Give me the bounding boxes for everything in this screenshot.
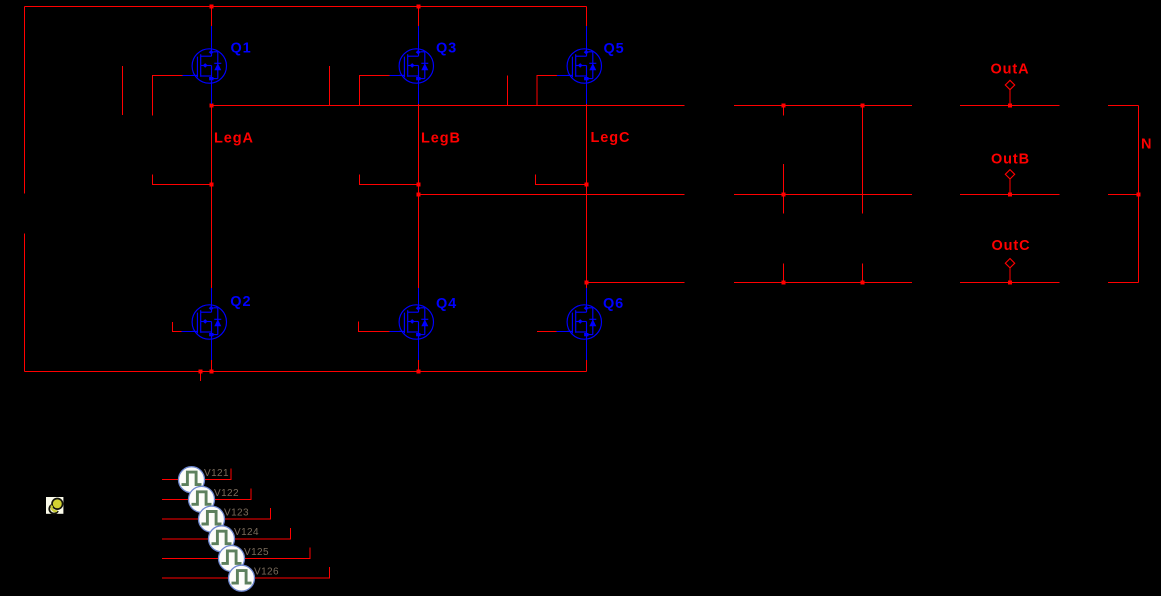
wire: V122 left lead <box>162 498 189 500</box>
node: Q4 source junction <box>417 370 421 374</box>
svg-text:LegA: LegA <box>214 131 254 147</box>
wire: neutral N vertical <box>1138 106 1140 283</box>
wire: LegA vertical <box>211 106 213 289</box>
transistor Q1: drain lead <box>211 26 213 49</box>
svg-text:Q3: Q3 <box>436 40 457 56</box>
wire: DC bus bottom rail <box>25 371 587 373</box>
svg-text:Q1: Q1 <box>231 40 252 56</box>
svg-text:OutB: OutB <box>991 152 1030 168</box>
transistor Q4: MOSFET symbol <box>399 305 433 339</box>
node: LegC tap junction <box>585 183 589 187</box>
wire: V126 left lead <box>162 577 229 579</box>
node: OutB/N junction <box>1137 193 1141 197</box>
svg-text:V121: V121 <box>204 468 229 479</box>
svg-text:LegC: LegC <box>591 130 631 146</box>
transistor Q3: gate lead <box>390 75 406 77</box>
wire: OutC rail segment 3 <box>960 282 1060 284</box>
svg-text:OutC: OutC <box>992 238 1031 254</box>
svg-text:OutA: OutA <box>991 62 1030 78</box>
wire: Q1 source to LegA node <box>211 101 213 106</box>
transistor Q6: source lead <box>586 339 588 360</box>
wire: V126 right lead with up-tick <box>255 567 330 578</box>
node: OutA probe junction <box>1008 104 1012 108</box>
node: OutC probe junction <box>1008 281 1012 285</box>
transistor Q3: source lead <box>418 83 420 104</box>
wire: Q5 gate drive stub <box>507 76 509 106</box>
wire: OutC rail segment 2 <box>734 282 912 284</box>
wire: DC bus left vertical upper piece (source gap below) <box>24 7 26 194</box>
wire: Q4 gate wire <box>359 322 390 332</box>
source V123: square pulse voltage source <box>199 506 225 532</box>
wire: V123 right lead with up-tick <box>225 508 271 519</box>
node: LegA/OutA junction <box>210 104 214 108</box>
node: OutB probe junction <box>1008 193 1012 197</box>
wire: Q3 gate drive stub <box>329 66 331 106</box>
svg-text:V124: V124 <box>234 527 259 538</box>
node: top rail junction at LegB <box>417 5 421 9</box>
transistor Q1: gate lead <box>183 75 199 77</box>
svg-text:Q2: Q2 <box>230 294 251 310</box>
node: LegA tap junction <box>210 183 214 187</box>
transistor Q2: MOSFET symbol <box>192 305 226 339</box>
wire: OutA rail segment 2 <box>734 105 912 107</box>
transistor Q6: MOSFET symbol <box>567 305 601 339</box>
transistor Q2: drain lead <box>211 288 213 305</box>
wire: load branch B vertical pieces (x=862) <box>862 106 864 283</box>
wire: snubber tap into LegA at y=184 <box>153 175 212 185</box>
wire: Q5 gate wire <box>537 76 557 106</box>
wire: Q3 drain stub from top rail <box>418 7 420 27</box>
wire: V125 right lead with up-tick <box>245 548 311 559</box>
wire: snubber tap into LegB at y=183 <box>360 175 419 185</box>
wire: OutB rail segment 1 <box>419 194 685 196</box>
transistor Q1: MOSFET symbol <box>192 49 226 83</box>
svg-text:Q4: Q4 <box>436 296 457 312</box>
wire: V124 right lead with up-tick <box>235 528 291 539</box>
source V124: square pulse voltage source <box>209 526 235 552</box>
wire: OutB rail segment 4 to N <box>1108 194 1139 196</box>
transistor Q6: drain lead <box>586 288 588 305</box>
transistor Q6: gate lead <box>557 331 574 333</box>
svg-text:Q6: Q6 <box>603 296 624 312</box>
svg-text:V122: V122 <box>214 488 239 499</box>
wire: Q4 source to bottom rail <box>418 360 420 372</box>
node OutA: diamond probe marker <box>1005 80 1014 89</box>
svg-text:V123: V123 <box>224 508 249 519</box>
node: bottom rail stub junction <box>199 370 203 374</box>
wire: Q5 drain stub from top rail <box>586 7 588 27</box>
transistor Q4: gate lead <box>390 331 406 333</box>
transistor Q3: MOSFET symbol <box>399 49 433 83</box>
wire: OutA rail segment 1 <box>212 105 685 107</box>
node: Q2 source junction <box>210 370 214 374</box>
wire: Q6 source to bottom rail <box>586 360 588 372</box>
wire: load branch A vertical pieces (x=783) <box>783 106 785 283</box>
node: branchA/OutA junction <box>782 104 786 108</box>
wire: V122 right lead with up-tick <box>215 488 251 499</box>
wire: Q5 source to LegC node <box>586 101 588 106</box>
wire: LegC vertical <box>586 106 588 289</box>
wire: Q2 gate wire <box>173 322 182 332</box>
wire: OutB rail segment 3 <box>960 194 1060 196</box>
transistor Q5: MOSFET symbol <box>567 49 601 83</box>
wire: DC bus top rail <box>25 6 587 8</box>
wire: V121 right lead with up-tick <box>205 469 232 480</box>
wire: V124 left lead <box>162 538 209 540</box>
source V122: square pulse voltage source <box>189 486 215 512</box>
wire: OutC rail segment 4 to N corner <box>1108 282 1139 284</box>
wire: V125 left lead <box>162 558 219 560</box>
svg-text:V125: V125 <box>244 547 269 558</box>
wire: Q1 gate wire <box>153 76 183 116</box>
wire: Q3 source to LegB node <box>418 101 420 106</box>
source V126: square pulse voltage source <box>229 565 255 591</box>
source V121: square pulse voltage source <box>179 467 205 493</box>
svg-text:LegB: LegB <box>421 131 461 147</box>
wire: Q6 gate wire <box>537 331 557 333</box>
wire: Q3 gate wire <box>360 76 390 106</box>
wire: OutB rail segment 2 <box>734 194 912 196</box>
wire: Q1 drain stub from top rail <box>211 7 213 27</box>
transistor Q5: source lead <box>586 83 588 104</box>
node: branchA/OutC junction <box>782 281 786 285</box>
transistor Q2: gate lead <box>182 331 199 333</box>
svg-text:Q5: Q5 <box>604 41 625 57</box>
node: LegB/OutB junction <box>417 193 421 197</box>
svg-text:N: N <box>1141 137 1152 153</box>
wire: Q1 gate drive dangling stub <box>122 66 124 115</box>
transistor Q2: source lead <box>211 339 213 360</box>
node: LegC/OutC junction <box>585 281 589 285</box>
wire: LegB vertical <box>418 106 420 289</box>
node: branchB/OutC junction <box>861 281 865 285</box>
transistor Q4: drain lead <box>418 288 420 305</box>
svg-text:V126: V126 <box>254 567 279 578</box>
wire: V123 left lead <box>162 518 199 520</box>
wire: DC bus left vertical lower piece <box>24 234 26 372</box>
node: top rail junction at LegA <box>210 5 214 9</box>
wire: Q2 source to bottom rail <box>211 360 213 372</box>
node: branchA/OutB junction <box>782 193 786 197</box>
node OutC: diamond probe marker <box>1005 259 1014 268</box>
wire: snubber tap into LegC at y=183 <box>536 175 587 185</box>
transistor Q5: drain lead <box>586 26 588 49</box>
transistor Q3: drain lead <box>418 26 420 49</box>
node OutB: diamond probe marker <box>1005 170 1014 179</box>
note icon (yellow ball on cream square) <box>46 497 63 514</box>
wire: V121 left lead <box>162 479 179 481</box>
transistor Q5: gate lead <box>557 75 573 77</box>
wire: OutA rail segment 4 to N corner <box>1108 105 1139 107</box>
node: LegB tap junction <box>417 183 421 187</box>
transistor Q1: source lead <box>211 83 213 104</box>
node: branchB/OutA junction <box>861 104 865 108</box>
source V125: square pulse voltage source <box>219 546 245 572</box>
transistor Q4: source lead <box>418 339 420 360</box>
wire: stub below bottom rail <box>200 372 202 382</box>
wire: OutA rail segment 3 <box>960 105 1060 107</box>
wire: OutC rail segment 1 <box>587 282 685 284</box>
